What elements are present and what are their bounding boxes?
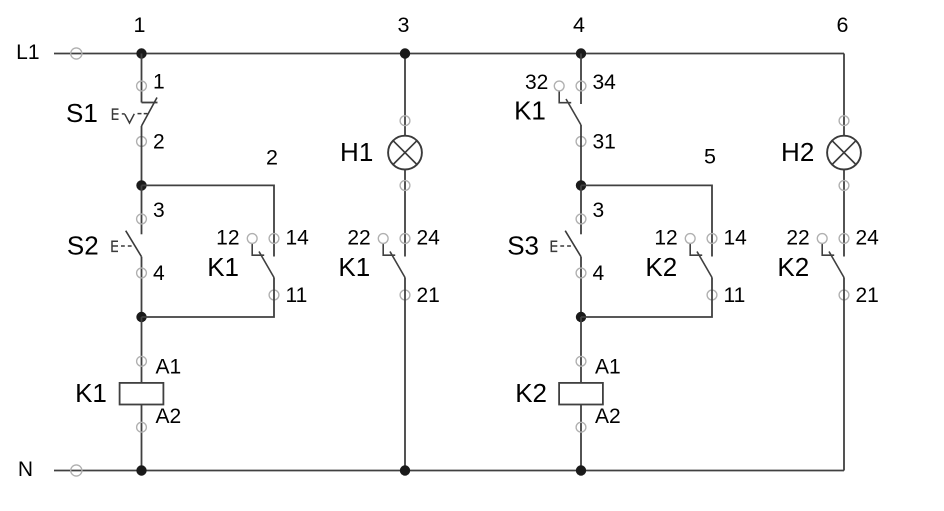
wire: lamp H1 to K1 contact 24	[404, 169, 406, 256]
svg-text:3: 3	[153, 199, 165, 222]
pushbutton S3 moving blade (NO, momentary)	[565, 231, 581, 257]
svg-text:24: 24	[856, 227, 880, 250]
L1 rail source terminal	[71, 48, 82, 59]
svg-text:L1: L1	[16, 41, 39, 64]
wire: K2 contact 21 to N rail corner	[843, 278, 845, 471]
wire: L1 supply rail	[54, 53, 844, 55]
node: L1 rail / branch 3	[400, 48, 410, 58]
wire: S1 terminal 2 to node A	[141, 126, 143, 185]
K1 coil terminal A1	[137, 356, 147, 366]
K1 contact terminal 22	[378, 234, 388, 244]
svg-text:K2: K2	[645, 252, 677, 282]
wire: coil K2 to N rail	[580, 405, 582, 471]
svg-text:K1: K1	[338, 252, 370, 282]
wire: L1 to lamp H1	[404, 54, 406, 137]
indicator lamp H2	[827, 136, 861, 170]
wire: L1 rail corner down to lamp H2	[843, 54, 845, 137]
K1 contact terminal 24	[400, 234, 410, 244]
S2 terminal circle 3	[137, 214, 147, 224]
S1 terminal circle 1	[137, 81, 147, 91]
K2 coil terminal A2	[576, 422, 586, 432]
indicator lamp H1	[388, 136, 422, 170]
H1 upper terminal	[400, 116, 410, 126]
svg-text:1: 1	[134, 13, 146, 37]
K2 coil terminal A1	[576, 356, 586, 366]
svg-text:22: 22	[786, 227, 809, 250]
H2 upper terminal	[839, 116, 849, 126]
wire: node A to K1 contact 14	[142, 185, 275, 256]
K1 contact terminal 21	[400, 290, 410, 300]
auxiliary contact K2 (12-14-11): moving blade	[697, 252, 712, 278]
svg-text:34: 34	[593, 71, 617, 94]
svg-text:A2: A2	[156, 405, 182, 428]
svg-text:12: 12	[654, 227, 677, 250]
auxiliary contact K1 (32-34-31): NC-side stop bar under left terminal	[559, 91, 571, 103]
wire: node C to K2 contact 14	[581, 185, 712, 256]
S3 manual pushbutton actuator	[551, 241, 574, 251]
svg-text:1: 1	[153, 70, 165, 93]
pushbutton S2 moving blade (NO, momentary)	[126, 231, 142, 257]
relay coil K2	[559, 383, 603, 405]
H2 lower terminal	[839, 181, 849, 191]
N rail source terminal	[71, 465, 82, 476]
K1 contact terminal 34	[576, 81, 586, 91]
node: branch 3 to N rail	[400, 465, 410, 475]
svg-text:2: 2	[266, 145, 278, 169]
auxiliary contact K1 (32-34-31): moving blade	[566, 99, 581, 125]
auxiliary contact K1 (22-24-21): moving blade	[390, 252, 405, 278]
wire: node D to coil K2	[580, 317, 582, 383]
S1 terminal circle 2	[137, 137, 147, 147]
wire: K1 contact 11 to node B	[142, 278, 275, 318]
K2 contact terminal 12	[685, 234, 695, 244]
wire: node A to S2	[141, 185, 143, 234]
wire: L1 to K1 contact 34	[580, 54, 582, 105]
K1 contact terminal 32	[554, 81, 564, 91]
auxiliary contact K2 (22-24-21): NC-side stop bar under left terminal	[822, 243, 834, 255]
node D (S3/K2-aux/K2-coil junction)	[576, 312, 586, 322]
svg-text:21: 21	[417, 284, 440, 307]
svg-text:A1: A1	[156, 356, 182, 379]
switch S1 moving blade (NO, maintained)	[142, 98, 158, 127]
node: branch 4 to N rail	[576, 465, 586, 475]
svg-text:32: 32	[525, 71, 548, 94]
node: L1 rail / branch 1	[136, 48, 146, 58]
H1 lower terminal	[400, 181, 410, 191]
relay coil K1	[120, 383, 164, 405]
wire: lamp H2 to K2 contact 24	[843, 169, 845, 256]
svg-text:S1: S1	[66, 98, 98, 128]
wire: N return rail	[54, 470, 844, 472]
svg-text:3: 3	[398, 13, 410, 37]
svg-text:S2: S2	[67, 231, 99, 261]
svg-text:12: 12	[216, 227, 239, 250]
S3 terminal circle 4	[576, 268, 586, 278]
svg-text:A1: A1	[595, 356, 621, 379]
auxiliary contact K1 (22-24-21): NC-side stop bar under left terminal	[383, 243, 395, 255]
svg-text:4: 4	[153, 262, 165, 285]
svg-text:31: 31	[593, 131, 616, 154]
svg-text:H2: H2	[781, 137, 814, 167]
wire: K2 contact 11 to node D	[581, 278, 712, 318]
svg-text:N: N	[18, 458, 33, 481]
node C (K1-contact/S3/K2-aux junction)	[576, 180, 586, 190]
node A (S1/S2/K1-aux junction)	[136, 180, 146, 190]
svg-text:11: 11	[286, 284, 308, 307]
svg-text:K1: K1	[75, 378, 107, 408]
svg-text:5: 5	[704, 145, 716, 169]
svg-text:K2: K2	[515, 378, 547, 408]
wire: S1 fixed contact bar	[142, 102, 158, 104]
node: branch 1 to N rail	[136, 465, 146, 475]
svg-text:24: 24	[417, 227, 441, 250]
svg-text:6: 6	[837, 13, 849, 37]
S2 manual pushbutton actuator	[112, 241, 135, 251]
K2 contact terminal 11	[707, 290, 717, 300]
auxiliary contact K1 (12-14-11): moving blade	[259, 252, 274, 278]
svg-text:S3: S3	[507, 231, 539, 261]
node B (S2/K1-aux/K1-coil junction)	[136, 312, 146, 322]
wire: L1 to S1 terminal 1	[141, 54, 143, 103]
svg-text:14: 14	[724, 227, 748, 250]
K2 contact terminal 14	[707, 234, 717, 244]
svg-text:14: 14	[286, 227, 310, 250]
svg-text:H1: H1	[340, 137, 373, 167]
auxiliary contact K1 (12-14-11): NC-side stop bar under left terminal	[252, 243, 264, 255]
K1 contact terminal 31	[576, 137, 586, 147]
wire: K1 contact 31 to node C	[580, 125, 582, 185]
auxiliary contact K2 (22-24-21): moving blade	[829, 252, 844, 278]
wire: S2 to node B	[141, 257, 143, 317]
svg-text:21: 21	[856, 284, 879, 307]
K1 contact terminal 12	[247, 234, 257, 244]
K1 coil terminal A2	[137, 422, 147, 432]
wire: node C to S3	[580, 185, 582, 234]
K2 contact terminal 22	[817, 234, 827, 244]
K2 contact terminal 24	[839, 234, 849, 244]
wire: S3 to node D	[580, 257, 582, 317]
K2 contact terminal 21	[839, 290, 849, 300]
svg-text:4: 4	[593, 262, 605, 285]
svg-text:K1: K1	[514, 96, 546, 126]
K1 contact terminal 11	[269, 290, 279, 300]
svg-text:2: 2	[153, 131, 165, 154]
svg-text:22: 22	[347, 227, 370, 250]
svg-text:4: 4	[573, 13, 585, 37]
svg-text:K1: K1	[207, 252, 239, 282]
wire: coil K1 to N rail	[141, 405, 143, 471]
wire: node B to coil K1	[141, 317, 143, 383]
node: L1 rail / branch 4	[576, 48, 586, 58]
auxiliary contact K2 (12-14-11): NC-side stop bar under left terminal	[690, 243, 702, 255]
svg-text:K2: K2	[777, 252, 809, 282]
S1 manual actuator with detent	[113, 109, 148, 123]
wire: K1 contact 21 to N rail	[404, 278, 406, 471]
K1 contact terminal 14	[269, 234, 279, 244]
S3 terminal circle 3	[576, 214, 586, 224]
S2 terminal circle 4	[137, 268, 147, 278]
svg-text:11: 11	[724, 284, 746, 307]
svg-text:A2: A2	[595, 405, 621, 428]
svg-text:3: 3	[593, 199, 605, 222]
